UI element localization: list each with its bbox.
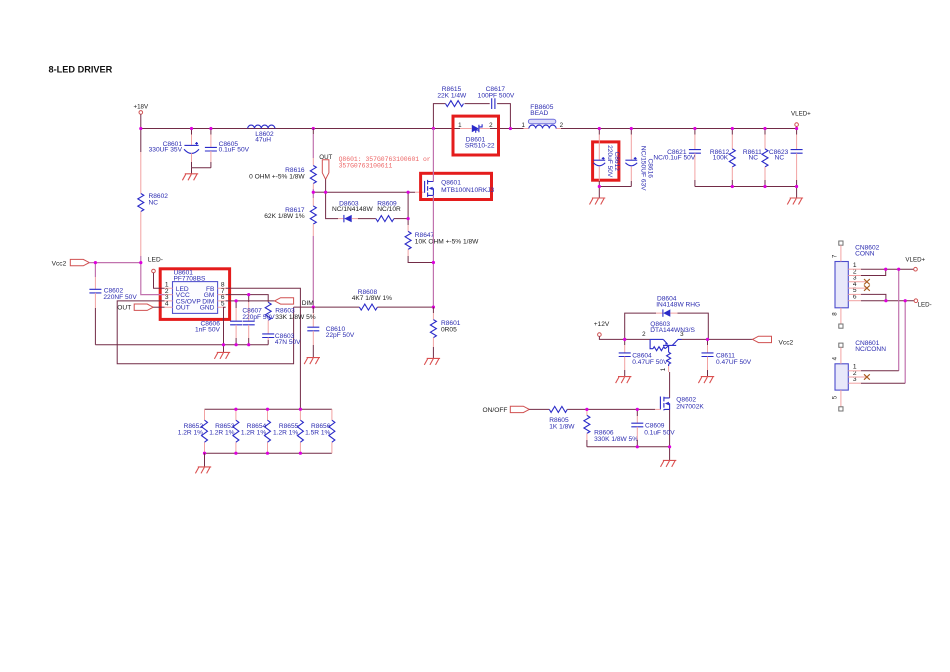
wire snubber branch [433, 104, 510, 129]
net flag ON/OFF [483, 406, 530, 414]
svg-text:NC: NC [748, 155, 758, 162]
ground at C8612 bus [590, 187, 606, 205]
resistor R8608 [352, 289, 392, 310]
svg-text:ON/OFF: ON/OFF [483, 407, 508, 414]
svg-text:DTA144WN3/S: DTA144WN3/S [650, 327, 695, 334]
svg-text:PF7708BS: PF7708BS [174, 276, 206, 283]
svg-text:1nF 50V: 1nF 50V [195, 326, 221, 333]
svg-text:DIM: DIM [302, 300, 314, 307]
wire on/off ground bus [587, 446, 670, 448]
IC U8601 PF7708BS body [173, 270, 218, 314]
svg-text:1: 1 [458, 122, 462, 129]
svg-text:1.2R 1%: 1.2R 1% [241, 429, 266, 436]
wire R8609 to branch junction [394, 218, 408, 220]
svg-text:33K 1/8W 5%: 33K 1/8W 5% [275, 314, 315, 321]
capacitor C8610 [307, 307, 355, 358]
wire CN8602 pin5 [848, 294, 886, 300]
svg-text:47N 50V: 47N 50V [275, 339, 301, 346]
wire D8603 to R8609 [358, 218, 376, 220]
svg-text:4K7 1/8W 1%: 4K7 1/8W 1% [352, 295, 392, 302]
svg-text:CONN: CONN [855, 251, 875, 258]
connector CN8602 body [835, 244, 880, 307]
ferrite bead FB8605 [521, 104, 563, 129]
net flag DIM [275, 298, 314, 307]
svg-text:8-LED DRIVER: 8-LED DRIVER [49, 65, 113, 75]
diode D8604 IN4148W RHG [656, 295, 700, 316]
svg-text:NC/0.1uF 50V: NC/0.1uF 50V [653, 155, 695, 162]
wire ground bus under C8621 R8612 R8611 C8623 [695, 186, 797, 188]
net flag OUT top [319, 154, 332, 192]
wire C8601-C8605 bottom link [192, 167, 211, 169]
wire Q8602 gate stub [655, 408, 660, 410]
ground at GND pin bus [214, 345, 230, 359]
net flag Vcc2 right [753, 336, 794, 346]
wire analog ground bus [95, 344, 268, 346]
wire CS sense net horizontal [294, 306, 360, 308]
wire CN8601 pin3 [848, 382, 905, 384]
svg-text:62K 1/8W 1%: 62K 1/8W 1% [264, 213, 304, 220]
ground at C8611 [698, 377, 714, 384]
wire bead pin2 stub [556, 128, 561, 130]
ground at Q8602 source [661, 447, 677, 467]
resistor R8617 [264, 192, 316, 307]
resistor R8603 [265, 302, 316, 334]
svg-text:NC/10R: NC/10R [377, 206, 401, 213]
connector CN8601 pin4 terminal [832, 343, 843, 364]
svg-text:330UF 35V: 330UF 35V [149, 147, 183, 154]
svg-text:OUT: OUT [176, 305, 190, 312]
svg-text:IN4148W RHG: IN4148W RHG [656, 302, 700, 309]
capacitor C8604 [619, 339, 668, 376]
capacitor C8602 [89, 263, 137, 345]
highlight box Q8601 [421, 173, 492, 199]
connector CN8601 pin numbers [853, 364, 857, 384]
wire rail D8601 anode stub [460, 128, 472, 130]
svg-text:1K 1/8W: 1K 1/8W [549, 424, 575, 431]
wire sense top bus [205, 408, 332, 410]
svg-text:LED-: LED- [918, 302, 932, 309]
wire Q8603 collector to Q8602 drain [668, 366, 670, 372]
terminal LED- right [914, 299, 932, 309]
ground at C8601 [182, 168, 198, 181]
capacitor C8617 [478, 86, 515, 109]
transistor Q8602 2N7002K [660, 396, 704, 410]
svg-text:0R05: 0R05 [441, 327, 457, 334]
svg-text:2: 2 [560, 122, 564, 129]
svg-text:1: 1 [660, 367, 667, 371]
svg-text:47uH: 47uH [255, 137, 271, 144]
svg-text:+12V: +12V [594, 321, 610, 328]
wire GND pin5 net [224, 307, 226, 345]
wire Q8602 source down [669, 409, 671, 446]
svg-text:NC/1N4148W: NC/1N4148W [332, 206, 373, 213]
junction dots U8601 area [247, 293, 250, 296]
svg-text:220pF 50V: 220pF 50V [242, 314, 275, 321]
connector CN8601 pin5 terminal [832, 390, 843, 411]
svg-text:1.2R 1%: 1.2R 1% [273, 429, 298, 436]
svg-text:VLED+: VLED+ [905, 257, 925, 264]
IC U8601 pin stubs left [165, 288, 173, 307]
wire CN8602 pin3 stub [848, 281, 866, 283]
svg-text:4: 4 [165, 301, 169, 308]
highlight box U8601 [160, 269, 229, 320]
capacitor C8603 [262, 333, 301, 346]
junction dots on right ground buses [598, 185, 601, 188]
wire D8604 branch [625, 313, 709, 339]
svg-text:NC/150UF 63V: NC/150UF 63V [640, 146, 647, 191]
wire Q8601 source vertical [432, 195, 434, 307]
wire R8608 to source node [377, 306, 433, 308]
svg-text:1.2R 1%: 1.2R 1% [209, 429, 234, 436]
svg-text:GND: GND [200, 305, 215, 312]
connector CN8602 pin7 terminal [832, 241, 843, 262]
capacitor C8612 [593, 129, 620, 187]
terminal +12V [594, 321, 650, 339]
IC U8601 pin stubs right [218, 288, 226, 307]
junction dot Vcc2/R8602 node [139, 261, 142, 264]
svg-text:220NF 50V: 220NF 50V [103, 294, 137, 301]
resistor R8616 [249, 129, 316, 193]
IC U8601 pin numbers [165, 282, 225, 308]
svg-text:0.1uF 50V: 0.1uF 50V [219, 147, 250, 154]
svg-text:0 OHM +-5% 1/8W: 0 OHM +-5% 1/8W [249, 174, 305, 181]
resistor R8609 [376, 200, 401, 221]
svg-text:NC: NC [149, 200, 159, 207]
junction dot DIM/CS node [312, 306, 315, 309]
terminal +18V [133, 104, 148, 129]
wire LED- to CN8601 pin3 vertical [904, 301, 906, 384]
wire CN8602 pin4 stub [848, 287, 866, 289]
svg-text:1.2R 1%: 1.2R 1% [178, 429, 203, 436]
svg-text:+18V: +18V [133, 104, 148, 111]
ground at C8604 [616, 377, 632, 384]
highlight box C8612 [593, 142, 619, 180]
wire bead pin1 stub [524, 128, 529, 130]
svg-text:22pF 50V: 22pF 50V [326, 332, 355, 339]
wire R8605 to gate node [567, 408, 655, 410]
ground at C8610 [304, 358, 320, 365]
resistor R8647 [405, 219, 479, 263]
net flag OUT left [117, 304, 164, 312]
transistor Q8603 DTA144WN3/S [642, 321, 695, 371]
svg-text:MTB100N10RKJ3: MTB100N10RKJ3 [441, 187, 494, 194]
wire VLED+ to CN8601 pin1 vertical [898, 269, 900, 371]
svg-text:2: 2 [642, 331, 646, 338]
wire CN8602 pin6 to LED- [848, 300, 914, 302]
svg-text:LED-: LED- [148, 256, 163, 263]
svg-text:330K 1/8W 5%: 330K 1/8W 5% [594, 436, 638, 443]
wire CN8601 pin2 stub [848, 376, 866, 378]
ground at C8623 bus [787, 187, 803, 205]
capacitor C8621 [653, 129, 700, 187]
svg-text:SR510-22: SR510-22 [465, 142, 495, 149]
wire GM pin7 net [226, 295, 269, 303]
svg-text:357G0763100611: 357G0763100611 [339, 163, 393, 170]
resistor R8615 [437, 86, 467, 106]
svg-text:0.1uF 50V: 0.1uF 50V [644, 429, 675, 436]
wire rail diode-to-bead segment [490, 128, 524, 130]
capacitor C8609 [631, 409, 675, 446]
wire FB pin8 net [226, 288, 301, 409]
svg-text:Q8601: Q8601 [441, 179, 461, 186]
resistor R8654 [241, 409, 271, 453]
wire CN8602 pin1 to VLED+ [848, 268, 913, 270]
junction dots gate network [312, 191, 315, 194]
connector CN8602 pin8 terminal [832, 308, 843, 328]
wire ground bus under C8612 C8616 [599, 186, 631, 188]
wire gate stub Q8601 [415, 191, 424, 193]
diode D8603 [332, 200, 373, 222]
svg-text:VLED+: VLED+ [791, 110, 811, 117]
wire +18V rail left segment [141, 128, 460, 130]
wire branch junction vertical [407, 192, 409, 218]
terminal VLED+ right [905, 257, 925, 272]
wire DIM pin6 net [226, 300, 275, 302]
svg-text:NC/CONN: NC/CONN [855, 346, 886, 353]
resistor R8652 [178, 409, 208, 453]
capacitor C8623 [769, 129, 803, 187]
capacitor C8601 [149, 129, 199, 168]
svg-text:10K OHM +-5% 1/8W: 10K OHM +-5% 1/8W [415, 238, 479, 245]
wire R8616 junction to gate net [313, 191, 325, 193]
resistor R8602 [138, 129, 168, 263]
capacitor C8616 [625, 129, 653, 192]
junction dots +12V rail [623, 338, 626, 341]
transistor Q8601 MTB100N10RKJ3 [425, 179, 495, 197]
ground at R8601 [424, 358, 440, 365]
capacitor C8606 [195, 301, 242, 345]
capacitor C8611 [702, 339, 752, 376]
junction dots on/off network [585, 408, 588, 411]
net flag LED- stub [148, 256, 165, 288]
wire Vcc2 net to VCC pin [89, 263, 164, 295]
resistor R8656 [305, 409, 335, 453]
resistor R8606 [584, 409, 638, 446]
junction dots CN8602 nets [884, 268, 887, 271]
wire rail D8601 cathode stub [479, 128, 490, 130]
svg-text:BEAD: BEAD [530, 110, 548, 117]
junction dot C8602 top [94, 261, 97, 264]
inductor L8602 [248, 125, 275, 144]
wire +18V rail right segment [561, 128, 797, 130]
junction dots on +18V rail [139, 127, 142, 130]
highlight box D8601 [453, 116, 499, 155]
svg-text:5: 5 [221, 301, 225, 308]
net flag Vcc2 left [52, 259, 90, 267]
svg-text:0.47UF 50V: 0.47UF 50V [632, 359, 668, 366]
svg-text:5: 5 [832, 395, 839, 399]
svg-text:7: 7 [832, 254, 839, 258]
svg-text:4: 4 [832, 356, 839, 360]
svg-text:2N7002K: 2N7002K [676, 403, 704, 410]
note text Q8601 alternates [339, 156, 431, 169]
svg-text:NC: NC [775, 155, 785, 162]
svg-text:220uF 50V: 220uF 50V [606, 145, 613, 178]
terminal VLED+ top [791, 110, 811, 128]
diode D8601 SR510-22 [458, 122, 495, 149]
wire CN8602 pin2 [848, 269, 885, 275]
IC U8601 pin names [176, 286, 215, 312]
svg-text:2: 2 [489, 122, 493, 129]
connector CN8602 pin numbers [853, 262, 857, 301]
resistor R8653 [209, 409, 239, 453]
resistor R8601 [430, 307, 460, 358]
resistor R8605 [549, 406, 575, 430]
ground at sense bus [195, 453, 211, 473]
resistor R8612 [710, 129, 735, 187]
resistor R8655 [273, 409, 303, 453]
wire Q8603 emitter to Vcc2 node [682, 338, 753, 340]
wire CS/OVP pin3 loop [117, 301, 293, 364]
junction dots sense buses [234, 408, 237, 411]
resistor R8611 [743, 129, 768, 187]
wire ON/OFF to R8605 [529, 408, 549, 410]
svg-text:8: 8 [832, 312, 839, 316]
capacitor C8607 [242, 295, 275, 345]
svg-text:Vcc2: Vcc2 [52, 260, 67, 267]
svg-text:0.47UF 50V: 0.47UF 50V [716, 359, 752, 366]
svg-text:OUT: OUT [117, 305, 131, 312]
no-connect X pin4 [864, 285, 870, 290]
wire Q8601 drain vertical [432, 129, 434, 182]
wire gate branch down [326, 192, 338, 218]
wire CN8601 pin1 [848, 370, 898, 372]
wire sense bottom bus [205, 452, 332, 454]
svg-text:22K 1/4W: 22K 1/4W [437, 93, 467, 100]
svg-text:100PF 500V: 100PF 500V [478, 93, 515, 100]
svg-text:Vcc2: Vcc2 [779, 339, 794, 346]
no-connect X CN8601 pin2 [864, 374, 870, 379]
svg-text:1: 1 [521, 122, 525, 129]
capacitor C8605 [205, 129, 250, 168]
svg-text:100K: 100K [713, 155, 729, 162]
wire gate drive net [326, 191, 415, 193]
no-connect X pin3 [864, 279, 870, 284]
junction dot source sense node [432, 306, 435, 309]
svg-text:1.5R 1%: 1.5R 1% [305, 429, 330, 436]
connector CN8601 body [835, 340, 886, 390]
svg-text:Q8602: Q8602 [676, 396, 696, 403]
